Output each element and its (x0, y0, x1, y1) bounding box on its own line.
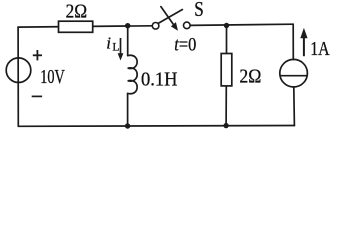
wire inductor bottom lead (127, 94, 129, 127)
switch S blade (158, 10, 182, 24)
svg-text:2Ω: 2Ω (239, 65, 261, 87)
current source horizontal bar (280, 75, 307, 77)
wire bottom (18, 125, 294, 128)
node junction dot bottom of inductor (125, 123, 130, 128)
svg-text:L: L (112, 40, 119, 53)
svg-text:S: S (194, 0, 204, 21)
voltage source U1 10V (circle, lead passes through) (6, 58, 31, 83)
switch S left contact (152, 23, 159, 30)
node A junction dot top of inductor (125, 23, 130, 28)
switch S right contact (184, 22, 191, 29)
svg-text:2Ω: 2Ω (66, 0, 88, 22)
wire top left (corner to switch left contact) (18, 26, 152, 27)
svg-text:i: i (106, 33, 111, 52)
svg-text:10V: 10V (40, 67, 65, 88)
node B junction dot top of R2 (224, 23, 229, 28)
svg-text:0.1H: 0.1H (141, 69, 178, 91)
resistor R1 2ohm horizontal (59, 21, 93, 32)
wire resistor R2 bottom lead (225, 86, 227, 126)
current source I1 1A circle (280, 59, 308, 87)
voltage source minus sign (32, 95, 42, 97)
wire right branch lower lead (293, 87, 296, 126)
current arrow iL pointing down (118, 38, 124, 61)
wire right branch upper lead (292, 24, 294, 59)
resistor R2 2ohm vertical (221, 54, 232, 86)
switch closing motion arrow (161, 7, 178, 31)
node junction dot bottom of R2 (223, 123, 228, 128)
svg-text:1A: 1A (310, 38, 330, 60)
current direction arrow 1A pointing up (300, 28, 307, 56)
wire top right (switch right contact to top-right corner) (190, 24, 293, 25)
voltage source plus sign (33, 50, 42, 60)
wire inductor top lead (127, 26, 129, 56)
wire resistor R2 top lead (226, 26, 228, 54)
inductor L1 0.1H coil (128, 55, 137, 94)
svg-text:t=0: t=0 (174, 34, 196, 55)
wire left edge (passes through voltage source) (17, 27, 19, 126)
